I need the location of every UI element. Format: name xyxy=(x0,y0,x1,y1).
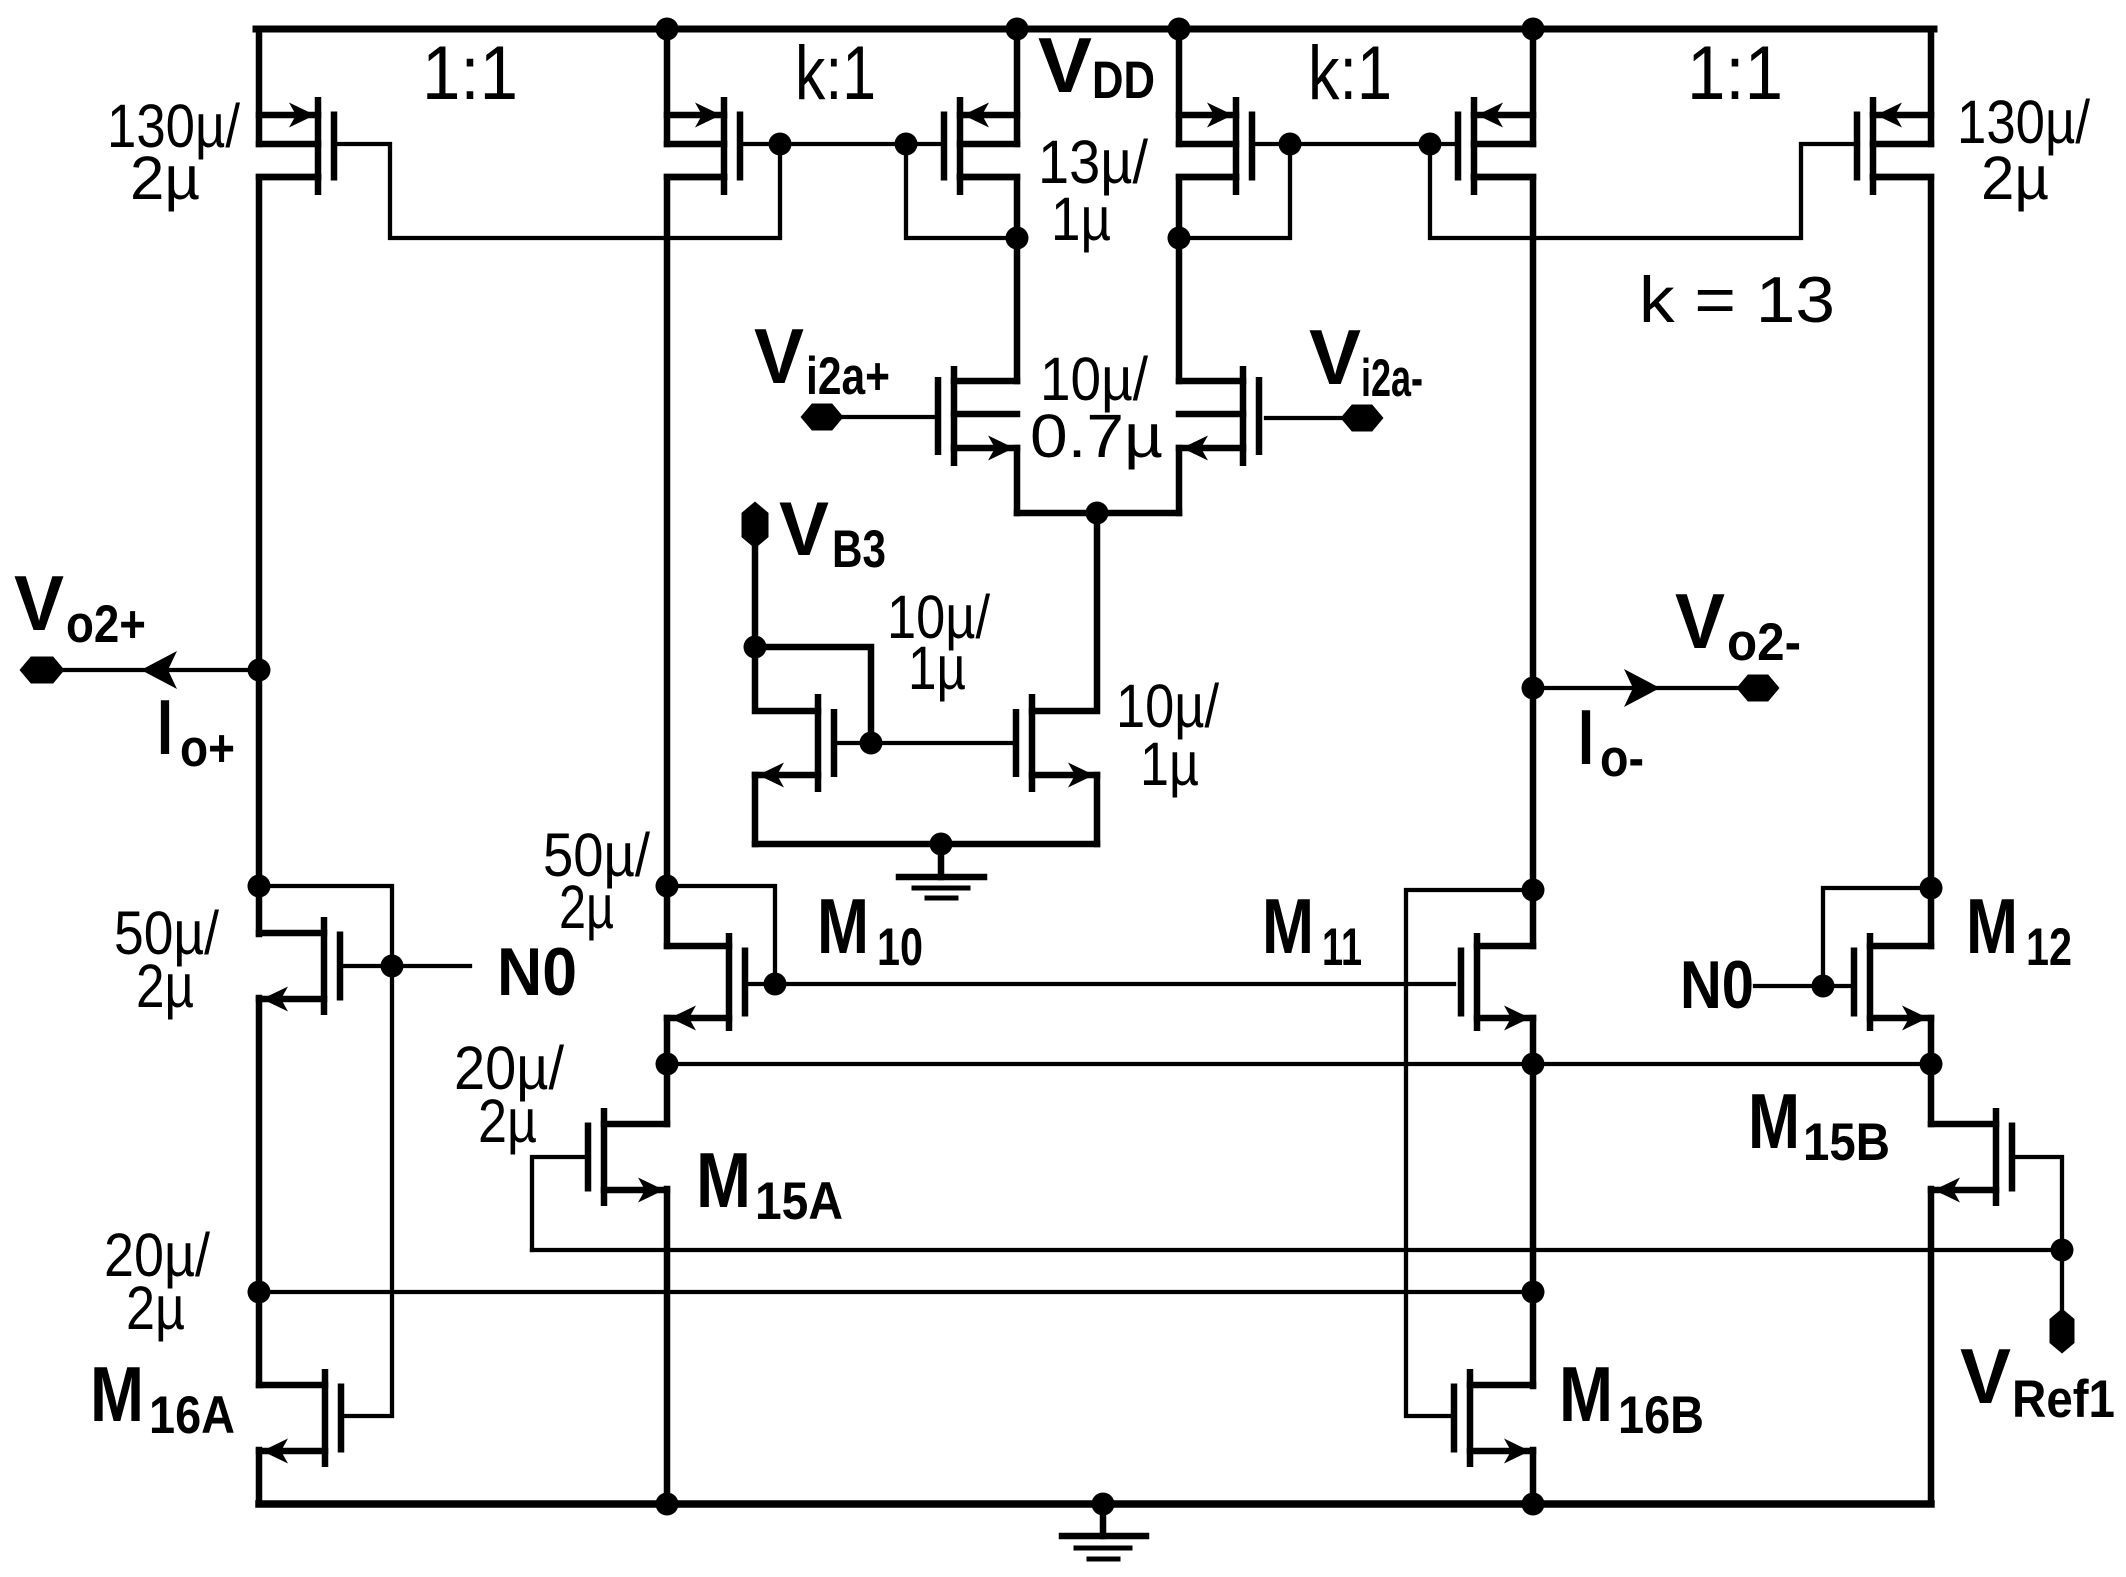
wire bias mirror bottom bar xyxy=(755,841,1097,848)
wire VB3 to mirror gate bus xyxy=(755,647,871,743)
transistor k:1 left pair left PMOS xyxy=(721,97,728,195)
transistor k:1 right pair right PMOS xyxy=(1471,97,1478,195)
svg-text:12: 12 xyxy=(2026,918,2072,977)
wire left mirror source down xyxy=(752,775,759,844)
wire tail of diff pair left xyxy=(1014,448,1021,513)
wire M12 gate lead xyxy=(1823,984,1852,988)
svg-text:1:1: 1:1 xyxy=(422,31,518,116)
svg-text:V: V xyxy=(14,559,64,647)
svg-text:M: M xyxy=(696,1136,751,1224)
wire N0 stub right xyxy=(1755,984,1823,988)
wire N0 stub left xyxy=(392,964,470,968)
wire Vi2a- gate lead xyxy=(1266,416,1344,420)
wire M10 gate lead xyxy=(745,982,775,986)
wire VB3 to left mirror NMOS drain xyxy=(755,647,818,711)
svg-text:M: M xyxy=(90,1350,144,1438)
svg-text:V: V xyxy=(779,487,829,572)
wire M12 source node down to M15B drain xyxy=(1928,1064,1935,1124)
wire VRef1 pad stem xyxy=(2060,1250,2064,1311)
wire gate bus of k:1 right pair xyxy=(1254,142,1456,146)
junction dot k:1 right gate node A xyxy=(1279,133,1302,156)
wire M16B source down to ground rail xyxy=(1530,1450,1537,1504)
transistor diff pair right PMOS 10u/0.7u xyxy=(1240,366,1247,466)
wire drain of 1:1 right PMOS down right rail xyxy=(1873,177,1931,946)
junction dot left diode tie xyxy=(248,875,271,898)
transistor k:1 left pair right PMOS xyxy=(957,97,964,195)
svg-text:2µ: 2µ xyxy=(126,1274,185,1342)
terminal Vo2- pad xyxy=(1737,675,1780,702)
junction dot Vo2- output node xyxy=(1522,677,1545,700)
wire VDD to k:1 left pair right device xyxy=(1014,29,1021,144)
ground symbol bias mirror xyxy=(938,844,945,877)
wire left NMOS gate lead xyxy=(340,964,392,968)
svg-text:1µ: 1µ xyxy=(1051,185,1111,253)
svg-text:16B: 16B xyxy=(1618,1386,1704,1445)
wire drain of k:1 left-right PMOS down to diff pair source xyxy=(960,177,1017,381)
svg-text:M: M xyxy=(1559,1350,1613,1438)
svg-text:V: V xyxy=(754,312,804,400)
wire left rail from VDD to 1:1 left PMOS source/bulk xyxy=(256,29,263,144)
svg-text:N0: N0 xyxy=(497,934,577,1010)
junction dot node N0 left xyxy=(381,955,404,978)
junction dot k:1 left gate node B xyxy=(895,133,918,156)
svg-text:2µ: 2µ xyxy=(136,952,194,1020)
svg-text:V: V xyxy=(1960,1332,2011,1420)
junction dot ground rail center xyxy=(1092,1493,1115,1516)
svg-text:1:1: 1:1 xyxy=(1687,31,1783,116)
wire Vo2+ output lead xyxy=(64,668,259,672)
arrow Io+ current direction xyxy=(141,651,177,689)
junction dot VDD rail center-left xyxy=(1006,18,1029,41)
svg-text:DD: DD xyxy=(1092,51,1155,110)
junction dot M10 source node xyxy=(656,1053,679,1076)
svg-text:N0: N0 xyxy=(1680,947,1754,1023)
junction dot left rail lower tie xyxy=(248,1281,271,1304)
transistor 1:1 left PMOS 130u/2u xyxy=(315,97,322,195)
svg-text:o2+: o2+ xyxy=(66,595,146,654)
junction dot VDD rail right-inner xyxy=(1522,18,1545,41)
junction dot M10 diode tie xyxy=(656,875,679,898)
wire M10 source node down to M15A drain xyxy=(664,1064,671,1124)
wire M11 source node down to M16B drain xyxy=(1530,1064,1537,1386)
junction dot VRef1 node xyxy=(2051,1239,2074,1262)
junction dot diff pair tail xyxy=(1086,502,1109,525)
svg-text:M: M xyxy=(1748,1077,1800,1165)
svg-text:o+: o+ xyxy=(180,719,235,778)
wire common source line xyxy=(667,1062,1931,1066)
svg-text:1µ: 1µ xyxy=(908,634,966,702)
svg-text:k:1: k:1 xyxy=(1308,31,1392,116)
wire drain of k:1 left-left PMOS down left inner branch xyxy=(667,177,724,946)
wire drain of k:1 right-left PMOS down to diff pair source xyxy=(1179,177,1236,381)
terminal VB3 pad xyxy=(742,502,769,549)
wire M15A gate to VRef line xyxy=(532,1157,584,1250)
svg-text:M: M xyxy=(1262,882,1314,970)
junction dot bias mirror ground tap xyxy=(930,833,953,856)
wire N0 node down to M16A gate xyxy=(344,966,392,1416)
wire drain of k:1 right-right PMOS down to M11 drain xyxy=(1474,177,1533,946)
wire M10 diode tie xyxy=(667,886,775,984)
transistor bias mirror left NMOS 10u/1u xyxy=(815,694,822,792)
wire M11 source down xyxy=(1530,1018,1537,1064)
svg-text:o2-: o2- xyxy=(1727,613,1801,672)
svg-text:B3: B3 xyxy=(832,520,886,579)
junction dot M10 gate node xyxy=(764,973,787,996)
wire ground rail xyxy=(259,1500,1931,1508)
wire gate of k:1 right pair to 1:1 right PMOS gate xyxy=(1430,144,1858,238)
wire right rail from VDD to 1:1 right PMOS source/bulk xyxy=(1928,29,1935,144)
ground symbol main xyxy=(1100,1504,1107,1536)
wire M10 source down xyxy=(664,1018,671,1064)
terminal VRef1 pad xyxy=(2050,1309,2075,1354)
svg-text:i2a-: i2a- xyxy=(1361,349,1423,408)
wire M12 diode tie xyxy=(1823,888,1931,986)
junction dot M16B drain tie xyxy=(1522,1281,1545,1304)
transistor M16A 20u/2u NMOS xyxy=(322,1369,329,1467)
junction dot node N0 right xyxy=(1812,975,1835,998)
wire VB3 pad stem xyxy=(752,545,759,647)
svg-text:I: I xyxy=(157,683,173,771)
transistor left 50u/2u NMOS xyxy=(321,917,328,1015)
svg-text:V: V xyxy=(1675,577,1725,665)
svg-text:o-: o- xyxy=(1600,729,1644,788)
wire tail down to bias mirror drain xyxy=(1032,513,1097,711)
junction dot Vo2+ output node xyxy=(248,659,271,682)
svg-text:i2a+: i2a+ xyxy=(806,347,890,406)
svg-text:k = 13: k = 13 xyxy=(1639,263,1835,336)
svg-text:2µ: 2µ xyxy=(559,873,614,941)
transistor bias mirror right NMOS 10u/1u xyxy=(1029,694,1036,792)
terminal Vi2a- input pad xyxy=(1341,405,1384,432)
junction dot VDD rail left-inner xyxy=(656,18,679,41)
wire M15A source down to ground rail xyxy=(664,1189,671,1504)
arrow Io- current direction xyxy=(1624,669,1660,707)
wire Vo2- output lead xyxy=(1533,686,1737,690)
wire VDD to k:1 right pair left device xyxy=(1176,29,1183,144)
junction dot M12 diode tie xyxy=(1920,877,1943,900)
wire left NMOS diode tie xyxy=(259,886,392,966)
svg-text:2µ: 2µ xyxy=(1981,144,2049,212)
wire M11 drain tie to M16B gate xyxy=(1406,890,1533,1416)
junction dot k:1 left gate node A xyxy=(769,133,792,156)
junction dot VDD rail center-right xyxy=(1168,18,1191,41)
svg-text:V: V xyxy=(1309,313,1361,401)
junction dot VB3 node xyxy=(744,636,767,659)
junction dot M11 source node xyxy=(1522,1053,1545,1076)
svg-text:Ref1: Ref1 xyxy=(2012,1370,2115,1429)
wire right mirror source down xyxy=(1094,775,1101,844)
transistor M11 50u/2u NMOS xyxy=(1474,933,1481,1031)
wire M15B gate to VRef node xyxy=(2012,1157,2062,1250)
wire VRef1 line xyxy=(532,1248,2062,1252)
svg-text:15B: 15B xyxy=(1803,1113,1890,1172)
wire M10-M11 gate bus xyxy=(775,982,1454,986)
transistor M15A 20u/2u NMOS xyxy=(601,1108,608,1206)
wire M12 source down xyxy=(1928,1018,1935,1064)
wire gate bus of k:1 left pair xyxy=(740,142,942,146)
wire left rail NMOS source down xyxy=(256,998,263,1385)
svg-text:M: M xyxy=(1966,882,2018,970)
transistor k:1 right pair left PMOS 13u/1u xyxy=(1233,97,1240,195)
wire mirror gate bus xyxy=(834,741,1015,745)
svg-text:1µ: 1µ xyxy=(1140,730,1199,798)
junction dot M11 drain tie xyxy=(1522,879,1545,902)
svg-text:2µ: 2µ xyxy=(478,1087,537,1155)
wire diff pair tail bar xyxy=(1017,510,1179,517)
svg-text:2µ: 2µ xyxy=(130,144,200,212)
svg-text:10: 10 xyxy=(877,918,923,977)
transistor M16B 20u/2u NMOS xyxy=(1467,1369,1474,1467)
junction dot k:1 right gate node B xyxy=(1419,133,1442,156)
transistor M15B 20u/2u NMOS xyxy=(1993,1108,2000,1206)
svg-text:I: I xyxy=(1578,693,1594,781)
wire k:1 left gate node to mirror drain node xyxy=(906,144,1017,238)
wire Vi2a+ gate lead xyxy=(840,415,938,419)
wire k:1 right gate node to mirror drain node xyxy=(1179,144,1290,238)
wire VDD to k:1 left pair left device xyxy=(664,29,671,144)
svg-text:k:1: k:1 xyxy=(795,31,876,116)
junction dot mirror drain node left xyxy=(1006,227,1029,250)
svg-text:11: 11 xyxy=(1322,918,1362,977)
wire VDD to k:1 right pair right device xyxy=(1530,29,1537,144)
wire VDD top rail xyxy=(256,26,1934,33)
svg-text:M: M xyxy=(817,882,869,970)
transistor M12 50u/2u NMOS xyxy=(1867,933,1874,1031)
junction dot M12 source node xyxy=(1920,1053,1943,1076)
wire M15B source down to ground rail xyxy=(1928,1189,1935,1504)
svg-text:0.7µ: 0.7µ xyxy=(1030,402,1163,470)
transistor M10 50u/2u NMOS xyxy=(726,933,733,1031)
wire lower tie line xyxy=(259,1290,1533,1294)
svg-text:15A: 15A xyxy=(755,1172,843,1231)
junction dot mirror drain node right xyxy=(1168,227,1191,250)
wire tail of diff pair right xyxy=(1176,448,1183,513)
terminal Vi2a+ input pad xyxy=(801,404,844,431)
junction dot ground rail left xyxy=(656,1493,679,1516)
junction dot ground rail right xyxy=(1522,1493,1545,1516)
wire gate of 1:1 left PMOS to k:1 left gate node xyxy=(334,144,780,238)
svg-text:V: V xyxy=(1038,21,1092,109)
junction dot mirror gate node xyxy=(860,732,883,755)
transistor diff pair left PMOS 10u/0.7u xyxy=(951,366,958,466)
transistor 1:1 right PMOS 130u/2u xyxy=(1870,97,1877,195)
wire drain of 1:1 left PMOS down left rail xyxy=(259,177,318,934)
terminal Vo2+ pad xyxy=(20,657,65,684)
svg-text:16A: 16A xyxy=(149,1386,235,1445)
wire M16A source down to ground rail xyxy=(256,1450,263,1504)
